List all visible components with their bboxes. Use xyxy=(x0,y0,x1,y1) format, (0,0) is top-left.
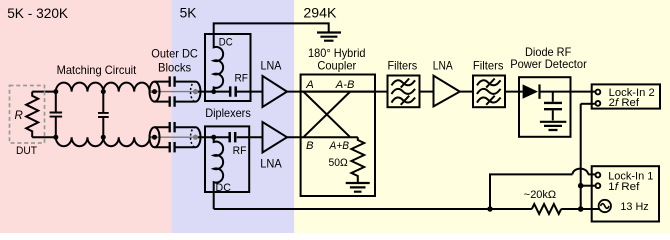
svg-text:A: A xyxy=(305,79,314,91)
svg-text:294K: 294K xyxy=(303,6,336,21)
svg-text:R: R xyxy=(15,110,23,122)
svg-text:50Ω: 50Ω xyxy=(329,157,348,169)
svg-text:B: B xyxy=(306,140,314,152)
svg-text:Outer DC: Outer DC xyxy=(151,47,198,61)
svg-text:A-B: A-B xyxy=(335,79,355,91)
svg-text:LNA: LNA xyxy=(260,157,282,171)
svg-text:A+B: A+B xyxy=(329,140,350,152)
svg-text:~20kΩ: ~20kΩ xyxy=(524,189,556,201)
svg-text:Power Detector: Power Detector xyxy=(510,57,587,71)
svg-text:5K - 320K: 5K - 320K xyxy=(7,6,68,21)
svg-text:Filters: Filters xyxy=(473,58,504,72)
svg-text:2f Ref: 2f Ref xyxy=(609,97,640,109)
svg-text:RF: RF xyxy=(233,145,247,157)
svg-text:5K: 5K xyxy=(180,6,197,21)
svg-text:Blocks: Blocks xyxy=(158,60,191,74)
svg-text:RF: RF xyxy=(235,73,249,85)
svg-text:Matching Circuit: Matching Circuit xyxy=(57,63,137,77)
svg-text:1f Ref: 1f Ref xyxy=(608,181,640,193)
svg-text:DUT: DUT xyxy=(16,145,37,157)
svg-text:Coupler: Coupler xyxy=(317,59,356,73)
svg-text:13 Hz: 13 Hz xyxy=(620,201,649,213)
svg-text:LNA: LNA xyxy=(433,58,453,72)
svg-text:DC: DC xyxy=(219,37,233,49)
svg-text:Filters: Filters xyxy=(388,58,418,72)
svg-text:LNA: LNA xyxy=(261,58,282,72)
svg-text:Diplexers: Diplexers xyxy=(205,106,251,120)
svg-text:DC: DC xyxy=(216,182,231,194)
